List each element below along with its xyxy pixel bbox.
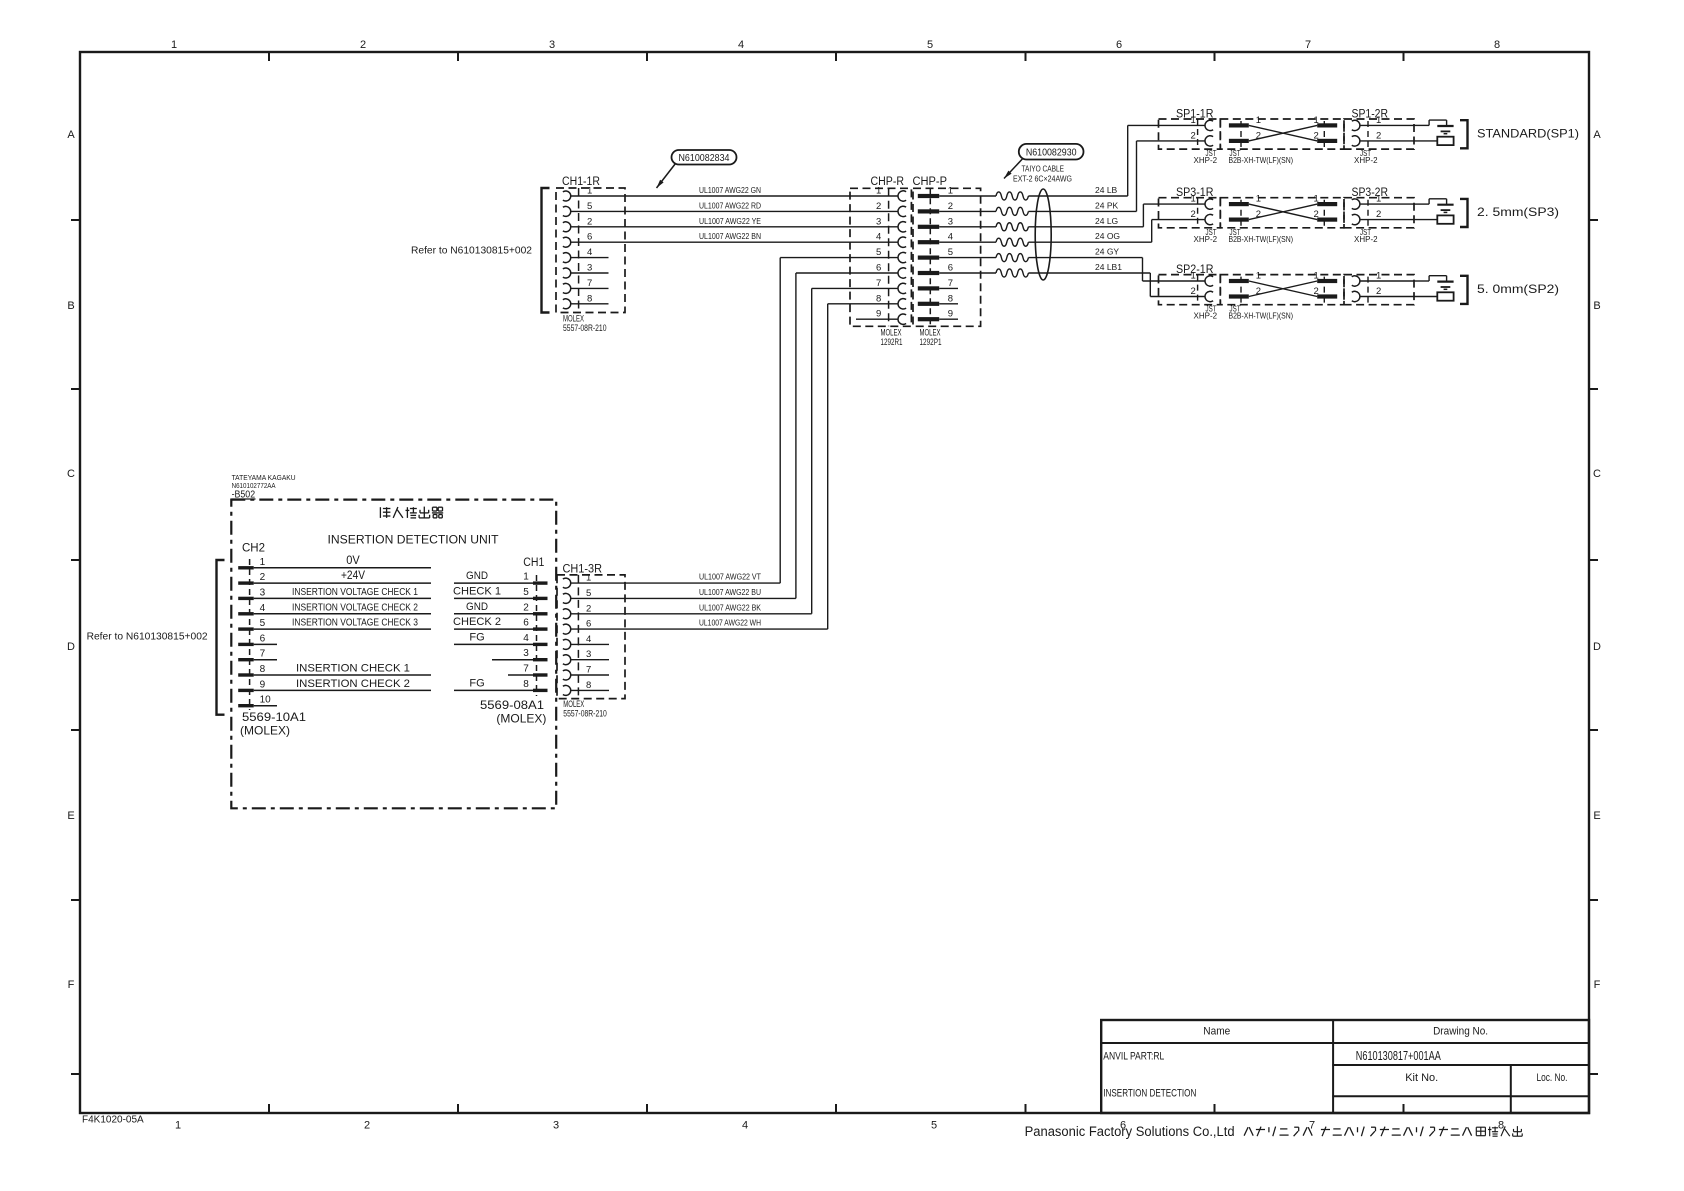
svg-text:CHECK 1: CHECK 1 — [453, 585, 501, 597]
svg-text:3: 3 — [948, 216, 953, 227]
svg-text:7: 7 — [948, 278, 953, 289]
svg-text:2: 2 — [587, 216, 592, 227]
svg-text:8: 8 — [876, 293, 881, 304]
svg-text:XHP-2: XHP-2 — [1194, 156, 1218, 165]
svg-text:1292P1: 1292P1 — [920, 337, 942, 347]
svg-text:4: 4 — [876, 232, 881, 243]
svg-text:2: 2 — [876, 201, 881, 212]
svg-text:6: 6 — [948, 263, 953, 274]
svg-text:1: 1 — [1191, 271, 1196, 282]
svg-text:N610082930: N610082930 — [1026, 147, 1077, 159]
svg-text:4: 4 — [738, 39, 744, 51]
svg-text:Drawing No.: Drawing No. — [1433, 1026, 1488, 1038]
svg-text:9: 9 — [876, 309, 881, 320]
svg-text:4: 4 — [948, 232, 953, 243]
svg-text:24 GY: 24 GY — [1095, 247, 1119, 257]
svg-text:1: 1 — [1256, 194, 1261, 205]
svg-text:UL1007 AWG22 YE: UL1007 AWG22 YE — [699, 216, 761, 226]
svg-text:SP3-2R: SP3-2R — [1352, 187, 1389, 199]
svg-text:A: A — [1593, 129, 1601, 141]
svg-text:24 LB: 24 LB — [1095, 185, 1118, 195]
svg-text:Refer to N610130815+002: Refer to N610130815+002 — [411, 246, 532, 257]
svg-text:9: 9 — [948, 309, 953, 320]
svg-text:C: C — [1593, 468, 1601, 480]
svg-text:8: 8 — [586, 680, 591, 691]
svg-text:5: 5 — [931, 1120, 937, 1132]
svg-text:SP1-2R: SP1-2R — [1352, 109, 1389, 121]
svg-text:CHP-P: CHP-P — [913, 176, 948, 188]
svg-text:TAIYO CABLE: TAIYO CABLE — [1022, 164, 1065, 174]
svg-text:STANDARD(SP1): STANDARD(SP1) — [1477, 127, 1579, 141]
svg-text:GND: GND — [466, 601, 488, 613]
svg-text:(MOLEX): (MOLEX) — [496, 712, 546, 726]
svg-text:MOLEX: MOLEX — [563, 314, 584, 324]
svg-text:N610082834: N610082834 — [679, 152, 730, 164]
svg-text:5: 5 — [586, 588, 591, 599]
svg-text:MOLEX: MOLEX — [881, 328, 902, 338]
svg-text:4: 4 — [523, 633, 529, 644]
svg-text:UL1007 AWG22 BN: UL1007 AWG22 BN — [699, 231, 761, 241]
svg-text:8: 8 — [523, 679, 529, 690]
svg-text:FG: FG — [469, 631, 484, 643]
svg-text:5557-08R-210: 5557-08R-210 — [563, 323, 607, 333]
svg-text:2: 2 — [1376, 209, 1381, 220]
svg-text:CH1-1R: CH1-1R — [562, 176, 600, 188]
svg-text:6: 6 — [876, 263, 881, 274]
svg-text:5: 5 — [260, 618, 266, 629]
svg-text:Loc. No.: Loc. No. — [1537, 1072, 1568, 1084]
svg-text:7: 7 — [260, 649, 266, 660]
svg-text:8: 8 — [948, 293, 953, 304]
svg-text:5569-08A1: 5569-08A1 — [480, 698, 544, 712]
svg-text:2: 2 — [1191, 209, 1196, 220]
svg-text:4: 4 — [742, 1120, 748, 1132]
svg-text:Panasonic Factory Solutions Co: Panasonic Factory Solutions Co.,Ltd — [1025, 1124, 1235, 1139]
svg-text:XHP-2: XHP-2 — [1354, 156, 1378, 165]
svg-text:INSERTION DETECTION: INSERTION DETECTION — [1103, 1088, 1196, 1100]
svg-text:INSERTION CHECK 1: INSERTION CHECK 1 — [296, 663, 410, 675]
svg-text:B2B-XH-TW(LF)(SN): B2B-XH-TW(LF)(SN) — [1229, 312, 1294, 321]
svg-text:3: 3 — [876, 216, 881, 227]
svg-text:1: 1 — [1376, 271, 1381, 282]
svg-text:FG: FG — [469, 677, 484, 689]
svg-text:UL1007 AWG22 WH: UL1007 AWG22 WH — [699, 618, 761, 628]
svg-text:1: 1 — [1256, 271, 1261, 282]
svg-text:2: 2 — [360, 39, 366, 51]
svg-text:24 LB1: 24 LB1 — [1095, 262, 1122, 272]
svg-text:Name: Name — [1203, 1026, 1230, 1038]
svg-text:1: 1 — [175, 1120, 181, 1132]
svg-text:5: 5 — [876, 247, 881, 258]
svg-text:7: 7 — [1305, 39, 1311, 51]
svg-text:F: F — [1594, 979, 1601, 991]
svg-text:E: E — [1593, 810, 1600, 822]
svg-text:4: 4 — [586, 634, 591, 645]
svg-text:1: 1 — [171, 39, 177, 51]
svg-text:(MOLEX): (MOLEX) — [240, 724, 290, 738]
svg-text:10: 10 — [260, 695, 272, 706]
svg-text:F: F — [68, 979, 75, 991]
svg-text:24 LG: 24 LG — [1095, 216, 1118, 226]
svg-text:CH2: CH2 — [242, 543, 265, 555]
svg-text:3: 3 — [553, 1120, 559, 1132]
svg-text:UL1007 AWG22 RD: UL1007 AWG22 RD — [699, 200, 761, 210]
svg-text:1: 1 — [1191, 115, 1196, 126]
svg-text:6: 6 — [260, 633, 266, 644]
svg-text:2: 2 — [586, 603, 591, 614]
svg-text:2: 2 — [1376, 286, 1381, 297]
svg-text:1: 1 — [1376, 194, 1381, 205]
svg-text:CH1: CH1 — [523, 557, 544, 569]
svg-text:2: 2 — [364, 1120, 370, 1132]
svg-text:1: 1 — [586, 573, 591, 584]
svg-text:XHP-2: XHP-2 — [1354, 235, 1378, 244]
svg-text:XHP-2: XHP-2 — [1194, 312, 1218, 321]
svg-text:24 PK: 24 PK — [1095, 200, 1118, 210]
svg-text:1292R1: 1292R1 — [881, 337, 903, 347]
svg-text:GND: GND — [466, 570, 488, 582]
svg-text:3: 3 — [549, 39, 555, 51]
svg-text:24 OG: 24 OG — [1095, 231, 1120, 241]
svg-text:3: 3 — [523, 648, 529, 659]
svg-text:5: 5 — [927, 39, 933, 51]
svg-text:4: 4 — [260, 603, 266, 614]
svg-text:5557-08R-210: 5557-08R-210 — [563, 709, 607, 719]
svg-text:1: 1 — [587, 186, 592, 197]
svg-text:B2B-XH-TW(LF)(SN): B2B-XH-TW(LF)(SN) — [1229, 156, 1294, 165]
svg-text:D: D — [1593, 641, 1601, 653]
svg-text:6: 6 — [1116, 39, 1122, 51]
svg-text:2: 2 — [523, 602, 529, 613]
svg-text:INSERTION VOLTAGE CHECK 2: INSERTION VOLTAGE CHECK 2 — [292, 602, 418, 613]
svg-text:INSERTION CHECK 2: INSERTION CHECK 2 — [296, 678, 410, 690]
svg-text:2: 2 — [1376, 130, 1381, 141]
svg-text:6: 6 — [586, 619, 591, 630]
svg-text:1: 1 — [876, 186, 881, 197]
svg-text:4: 4 — [587, 247, 592, 258]
svg-text:INSERTION DETECTION UNIT: INSERTION DETECTION UNIT — [328, 533, 500, 547]
svg-text:MOLEX: MOLEX — [920, 328, 941, 338]
svg-text:5: 5 — [523, 587, 529, 598]
svg-text:2. 5mm(SP3): 2. 5mm(SP3) — [1477, 205, 1559, 219]
svg-text:8: 8 — [1498, 1120, 1504, 1132]
svg-text:INSERTION VOLTAGE CHECK 1: INSERTION VOLTAGE CHECK 1 — [292, 587, 418, 598]
svg-text:XHP-2: XHP-2 — [1194, 235, 1218, 244]
svg-text:5: 5 — [948, 247, 953, 258]
svg-text:2: 2 — [948, 201, 953, 212]
svg-text:1: 1 — [1314, 115, 1319, 126]
svg-text:7: 7 — [876, 278, 881, 289]
svg-text:1: 1 — [523, 572, 529, 583]
svg-text:D: D — [67, 641, 75, 653]
svg-text:B: B — [1593, 300, 1600, 312]
svg-text:CHECK 2: CHECK 2 — [453, 616, 501, 628]
svg-text:A: A — [67, 129, 75, 141]
svg-text:5: 5 — [587, 201, 592, 212]
svg-text:9: 9 — [260, 679, 266, 690]
svg-text:7: 7 — [523, 664, 529, 675]
svg-text:B: B — [67, 300, 74, 312]
svg-text:UL1007 AWG22 BK: UL1007 AWG22 BK — [699, 602, 761, 612]
svg-text:8: 8 — [1494, 39, 1500, 51]
svg-text:1: 1 — [1314, 194, 1319, 205]
svg-text:N610130817+001AA: N610130817+001AA — [1356, 1049, 1441, 1063]
svg-text:7: 7 — [586, 665, 591, 676]
svg-text:1: 1 — [260, 557, 266, 568]
svg-text:3: 3 — [587, 263, 592, 274]
svg-text:UL1007 AWG22 VT: UL1007 AWG22 VT — [699, 572, 761, 582]
svg-text:1: 1 — [1376, 115, 1381, 126]
svg-text:1: 1 — [948, 186, 953, 197]
svg-text:1: 1 — [1256, 115, 1261, 126]
svg-text:0V: 0V — [346, 553, 360, 567]
svg-text:Kit No.: Kit No. — [1405, 1072, 1438, 1084]
svg-text:F4K1020-05A: F4K1020-05A — [82, 1115, 144, 1126]
svg-text:8: 8 — [587, 293, 592, 304]
svg-text:5569-10A1: 5569-10A1 — [242, 710, 306, 724]
svg-text:7: 7 — [587, 278, 592, 289]
svg-text:+24V: +24V — [341, 568, 365, 582]
svg-text:C: C — [67, 468, 75, 480]
svg-text:6: 6 — [587, 232, 592, 243]
svg-text:Refer to N610130815+002: Refer to N610130815+002 — [87, 632, 208, 643]
svg-text:B2B-XH-TW(LF)(SN): B2B-XH-TW(LF)(SN) — [1229, 235, 1294, 244]
svg-text:ANVIL PART:RL: ANVIL PART:RL — [1103, 1051, 1164, 1063]
svg-text:5. 0mm(SP2): 5. 0mm(SP2) — [1477, 282, 1559, 296]
svg-text:3: 3 — [260, 587, 266, 598]
svg-text:2: 2 — [1191, 286, 1196, 297]
svg-text:INSERTION VOLTAGE CHECK 3: INSERTION VOLTAGE CHECK 3 — [292, 618, 418, 629]
svg-text:2: 2 — [1191, 130, 1196, 141]
svg-text:E: E — [67, 810, 74, 822]
svg-text:8: 8 — [260, 664, 266, 675]
svg-text:MOLEX: MOLEX — [563, 699, 584, 709]
svg-text:3: 3 — [586, 649, 591, 660]
svg-text:CH1-3R: CH1-3R — [563, 564, 603, 576]
svg-text:EXT-2 6C×24AWG: EXT-2 6C×24AWG — [1013, 174, 1072, 184]
svg-text:1: 1 — [1314, 271, 1319, 282]
svg-text:UL1007 AWG22 BU: UL1007 AWG22 BU — [699, 587, 761, 597]
svg-text:UL1007 AWG22 GN: UL1007 AWG22 GN — [699, 185, 761, 195]
svg-text:2: 2 — [260, 572, 266, 583]
svg-text:1: 1 — [1191, 194, 1196, 205]
svg-text:6: 6 — [523, 618, 529, 629]
